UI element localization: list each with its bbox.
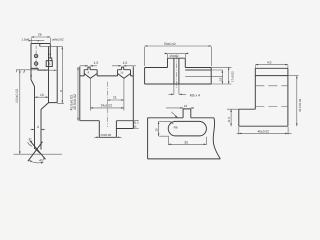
- view3 step hidden line: [185, 67, 231, 84]
- view4 R leader: [170, 121, 174, 124]
- svg-text:15±0.2: 15±0.2: [169, 54, 179, 58]
- view2 dim 1.5 left: [80, 65, 97, 67]
- svg-text:15: 15: [120, 70, 124, 74]
- svg-text:10: 10: [155, 128, 159, 132]
- view1 overall height dim: [14, 70, 63, 154]
- view5 left small dim: [227, 109, 239, 126]
- view1 hole circle 1: [34, 54, 37, 57]
- view1 left part outline: [31, 44, 57, 150]
- svg-text:32.5±0.02: 32.5±0.02: [298, 98, 302, 112]
- view4 plate outline: [148, 109, 221, 159]
- svg-text:46±0.02: 46±0.02: [258, 130, 270, 134]
- view3 dim 17: [228, 67, 230, 84]
- svg-text:24±0.02: 24±0.02: [101, 104, 113, 108]
- svg-text:26: 26: [38, 32, 42, 36]
- view3 dim 11: [221, 70, 223, 84]
- view3 hole centerline: [175, 55, 177, 89]
- view3 tapped hole: [174, 58, 179, 84]
- view3 bar outline: [145, 68, 212, 85]
- svg-text:11: 11: [218, 77, 222, 81]
- view5 datum line: [255, 75, 288, 77]
- view3 dim 15: [165, 53, 188, 57]
- view5 step block outline: [239, 68, 288, 126]
- view1 hole centerline: [35, 46, 37, 70]
- svg-text:1.5: 1.5: [94, 61, 99, 65]
- view1 hole circle 2: [34, 62, 37, 65]
- view2 prong stems ext: [90, 78, 124, 110]
- view2 boss bottom dim: [94, 136, 121, 138]
- view1 shoulder ext line with 9: [16, 70, 41, 73]
- view1 dim 18: [35, 96, 49, 98]
- view1 tip leader cross: [28, 141, 46, 162]
- view4 bottom dim 35: [168, 137, 206, 145]
- svg-text:5: 5: [48, 53, 52, 55]
- view2 left dim: [77, 67, 79, 121]
- view1 dim 45.5: [57, 46, 64, 103]
- view5 hidden line 1: [255, 85, 288, 87]
- view5 bottom dim: [237, 127, 292, 135]
- view3 dim 50: [145, 46, 212, 66]
- view1 dim 4: [30, 129, 45, 131]
- svg-text:18: 18: [40, 93, 44, 97]
- view1 dim 1.5 row: [29, 40, 44, 42]
- view3 boss: [168, 58, 186, 67]
- svg-text:1.5⌀8: 1.5⌀8: [21, 37, 29, 41]
- view2 dim 1.5 right: [112, 65, 136, 67]
- view5 dim 4.5: [255, 65, 288, 68]
- view2 dim 22: [90, 107, 124, 109]
- svg-text:R6: R6: [174, 125, 178, 129]
- svg-text:45.5±0.02: 45.5±0.02: [73, 94, 77, 110]
- view3 M3 dim: [169, 84, 187, 94]
- view2 boss: [99, 121, 133, 138]
- view2 right mini dims: [116, 121, 138, 129]
- svg-text:11.5: 11.5: [227, 117, 231, 123]
- view2 dim 11: [107, 99, 124, 101]
- svg-text:17±0.02: 17±0.02: [231, 71, 235, 82]
- svg-text:⌀8±0.02: ⌀8±0.02: [52, 38, 64, 42]
- svg-text:100±0.02: 100±0.02: [15, 89, 19, 103]
- view4 surface leader: [171, 112, 177, 118]
- svg-text:12: 12: [184, 104, 188, 108]
- view1 square pocket: [46, 61, 52, 67]
- view4 slot: [168, 121, 206, 135]
- svg-text:11: 11: [113, 96, 117, 100]
- svg-text:4: 4: [37, 125, 39, 129]
- view1 angle dim arc: [29, 160, 44, 163]
- view4 tab dim 12: [166, 107, 194, 109]
- svg-text:35: 35: [184, 141, 188, 145]
- svg-text:1.5: 1.5: [123, 61, 128, 65]
- view1 angled tip cut: [35, 149, 41, 155]
- view1 dim under square: [43, 69, 57, 71]
- view2 centerline: [106, 82, 108, 127]
- view4 break line: [213, 118, 220, 159]
- svg-text:5: 5: [49, 62, 51, 66]
- view1 step ext line: [40, 45, 63, 47]
- view4 left dim: [159, 121, 170, 136]
- view5 right dim: [296, 76, 298, 127]
- svg-text:M3 x 4: M3 x 4: [190, 93, 200, 97]
- svg-text:50±0.02: 50±0.02: [164, 42, 176, 46]
- svg-text:9: 9: [30, 74, 32, 78]
- view5 hidden line 2: [255, 106, 288, 108]
- view2 fork outline: [80, 67, 134, 129]
- view1 dim 26: [31, 37, 50, 43]
- svg-text:45°: 45°: [39, 159, 45, 163]
- svg-text:15±0.02: 15±0.02: [100, 133, 111, 137]
- svg-text:4.5: 4.5: [267, 60, 272, 64]
